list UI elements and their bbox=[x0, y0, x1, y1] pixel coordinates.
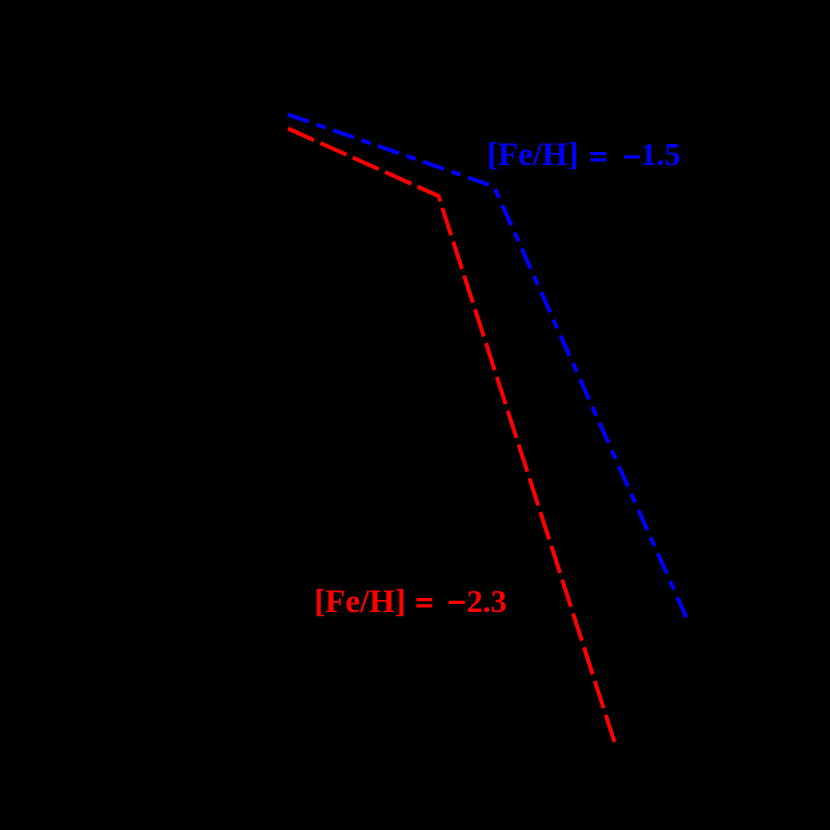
label [Fe/H] = -2.3 (red) bbox=[314, 583, 507, 621]
svg-text:=: = bbox=[589, 139, 607, 175]
isochrone curve [Fe/H]=-2.3 (red dashed) bbox=[288, 129, 615, 743]
svg-text:−: − bbox=[448, 584, 466, 620]
svg-text:1.5: 1.5 bbox=[641, 136, 681, 172]
svg-text:[Fe/H]: [Fe/H] bbox=[487, 137, 579, 173]
label [Fe/H] = -1.5 (blue) bbox=[487, 136, 681, 175]
isochrone curve [Fe/H]=-1.5 (blue dash-dot) bbox=[287, 114, 687, 617]
svg-text:2.3: 2.3 bbox=[467, 583, 507, 619]
svg-text:−: − bbox=[623, 138, 641, 174]
svg-text:=: = bbox=[415, 585, 433, 621]
svg-text:[Fe/H]: [Fe/H] bbox=[314, 584, 406, 620]
